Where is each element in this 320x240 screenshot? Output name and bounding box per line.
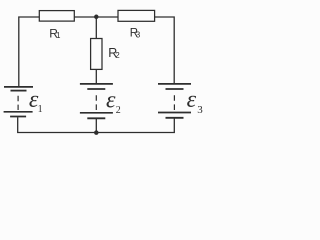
wire: node A down to R2 [95, 17, 97, 39]
svg-text:ε: ε [187, 87, 197, 113]
battery E3 long plate (lower cell) [158, 112, 191, 114]
battery E3 short plate (lower cell) [166, 117, 184, 119]
battery E2 short plate (lower cell) [87, 117, 105, 119]
wire: R3 to top-right corner (right rail down to battery E3) [155, 17, 175, 83]
svg-text:2: 2 [115, 51, 120, 60]
resistor R1 [39, 11, 74, 22]
wire: node B to bottom-right corner up to battery E3 [96, 118, 174, 133]
svg-text:3: 3 [136, 30, 141, 39]
wire: R2 down to battery E2 [95, 69, 97, 83]
battery E3 dashed cell link [173, 95, 175, 110]
svg-text:1: 1 [38, 104, 43, 115]
label R2 [108, 46, 120, 60]
battery E1 long plate (lower cell) [4, 111, 33, 113]
wire: top-left corner (left rail down to battery E1) [19, 17, 40, 86]
label R1 [49, 27, 61, 41]
wire: E2 down to node B [95, 118, 97, 132]
svg-text:1: 1 [56, 31, 61, 40]
battery E2 long plate (upper cell) [80, 83, 113, 85]
label E2 [106, 87, 121, 116]
label E1 [29, 87, 43, 115]
battery E3 long plate (upper cell) [158, 83, 191, 85]
svg-text:2: 2 [116, 105, 121, 116]
resistor R2 [91, 39, 102, 70]
battery E2 long plate (lower cell) [80, 112, 113, 114]
battery E2 short plate (upper cell) [87, 88, 105, 90]
battery E3 short plate (upper cell) [166, 88, 184, 90]
node A (junction dot, top) [94, 15, 99, 20]
battery E1 short plate (upper cell) [11, 90, 27, 92]
wire: node A to R3 [96, 16, 118, 18]
label E3 [187, 87, 204, 116]
battery E1 long plate (upper cell) [4, 86, 33, 88]
node B (junction dot, bottom) [94, 130, 99, 135]
battery E1 short plate (lower cell) [10, 116, 26, 118]
battery E1 dashed cell link [17, 96, 19, 111]
label R3 [130, 27, 141, 39]
svg-text:ε: ε [106, 87, 116, 113]
wire: E1 to bottom-left corner, bottom wire to node B [18, 117, 97, 132]
resistor R3 [118, 10, 155, 21]
battery E2 dashed cell link [95, 95, 97, 110]
svg-text:3: 3 [197, 104, 203, 116]
wire: R1 to node A [74, 16, 96, 18]
